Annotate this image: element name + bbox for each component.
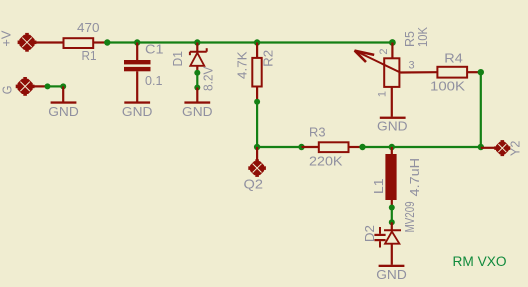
svg-text:Y2: Y2 bbox=[509, 141, 523, 157]
svg-text:1: 1 bbox=[377, 91, 389, 97]
svg-text:C1: C1 bbox=[145, 43, 164, 57]
junction below L1 bbox=[389, 205, 395, 211]
junction below R2 bbox=[254, 99, 260, 105]
svg-text:D1: D1 bbox=[171, 51, 185, 67]
junction at GND pin of D1 bbox=[194, 85, 200, 91]
svg-text:220K: 220K bbox=[309, 154, 343, 168]
svg-text:GND: GND bbox=[377, 119, 408, 133]
svg-text:MV209: MV209 bbox=[403, 201, 417, 232]
trimmer potentiometer R5 bbox=[354, 43, 436, 117]
wire VCC rail bbox=[107, 41, 392, 43]
pad Y2 bbox=[481, 140, 511, 156]
svg-text:R5: R5 bbox=[403, 31, 417, 47]
svg-text:R3: R3 bbox=[309, 126, 326, 140]
junction at D1 bbox=[194, 39, 200, 45]
svg-text:470: 470 bbox=[77, 21, 100, 35]
wire L1 to D2 bbox=[391, 208, 393, 223]
junction at D2 bbox=[389, 219, 395, 225]
junction at Q2 stub bbox=[254, 144, 260, 150]
svg-text:GND: GND bbox=[376, 268, 407, 282]
junction right of R4 bbox=[478, 69, 484, 75]
supply pad +V bbox=[18, 33, 37, 52]
svg-text:D2: D2 bbox=[363, 225, 377, 242]
ground under R5 bbox=[380, 117, 406, 119]
trimmer R5 pin 2 connection bbox=[389, 39, 396, 46]
svg-text:GND: GND bbox=[182, 105, 213, 119]
wire bottom net right segment bbox=[363, 146, 481, 148]
junction at C1 bbox=[134, 39, 140, 45]
varactor diode D2 bbox=[374, 222, 401, 264]
ground under C1 bbox=[124, 101, 150, 103]
svg-text:R2: R2 bbox=[262, 50, 276, 67]
svg-text:100K: 100K bbox=[430, 80, 466, 94]
junction at G GND bbox=[60, 83, 66, 89]
wire G net bbox=[48, 85, 64, 87]
wire +V pad to R1 bbox=[33, 41, 63, 43]
ground under D1 bbox=[184, 88, 210, 104]
ground under G bbox=[51, 86, 77, 103]
svg-text:RM VXO: RM VXO bbox=[453, 254, 507, 269]
svg-text:G: G bbox=[1, 86, 15, 95]
svg-text:GND: GND bbox=[48, 105, 79, 119]
svg-text:4.7uH: 4.7uH bbox=[408, 158, 422, 197]
supply pad G bbox=[16, 77, 35, 96]
resistor R4 bbox=[437, 67, 478, 78]
svg-text:10K: 10K bbox=[416, 26, 430, 47]
svg-text:R4: R4 bbox=[444, 52, 463, 66]
svg-text:8.2V: 8.2V bbox=[201, 66, 215, 91]
ground under D2 bbox=[379, 265, 405, 267]
wire R4 down to output net bbox=[480, 72, 482, 147]
junction below D1 bbox=[194, 70, 200, 76]
junction on G net bbox=[45, 83, 51, 89]
zener diode D1 bbox=[190, 43, 207, 73]
svg-text:L1: L1 bbox=[372, 178, 386, 194]
pad Q2 bbox=[248, 147, 266, 177]
junction at R1 output bbox=[104, 39, 110, 45]
wire G pad stub bbox=[31, 85, 48, 87]
junction at R2 bbox=[254, 39, 260, 45]
junction right of R3 bbox=[359, 144, 365, 150]
resistor R3 bbox=[302, 142, 363, 152]
resistor R2 bbox=[252, 43, 261, 102]
svg-text:Q2: Q2 bbox=[244, 177, 264, 191]
svg-text:GND: GND bbox=[122, 105, 153, 119]
svg-text:4.7K: 4.7K bbox=[235, 51, 249, 79]
svg-text:R1: R1 bbox=[82, 49, 97, 63]
svg-text:3: 3 bbox=[409, 59, 415, 71]
wire D1 anode to GND bbox=[196, 73, 198, 88]
wire R2 down to gate net bbox=[256, 102, 258, 147]
svg-text:0.1: 0.1 bbox=[145, 74, 163, 88]
junction at L1 bbox=[389, 144, 395, 150]
junction left of R3 bbox=[298, 144, 304, 150]
svg-text:+V: +V bbox=[0, 30, 14, 47]
svg-text:2: 2 bbox=[378, 49, 390, 55]
wire gate net left segment bbox=[257, 146, 301, 148]
capacitor C1 bbox=[124, 43, 151, 102]
resistor R1 bbox=[64, 38, 107, 48]
inductor L1 bbox=[385, 147, 396, 208]
junction at Y2 branch bbox=[478, 144, 484, 150]
